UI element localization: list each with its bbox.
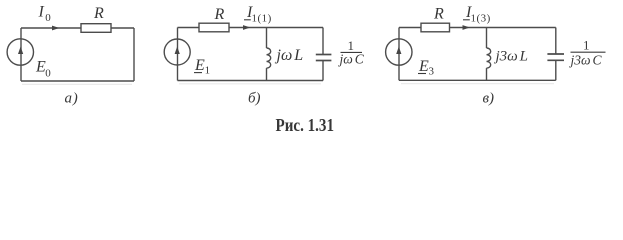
capacitor C (circuit v) plates	[547, 54, 564, 60]
EMF source E3: circle	[386, 39, 412, 65]
circuit v: inductor branch top lead	[486, 28, 488, 49]
circuit v: left wire	[398, 28, 400, 81]
svg-text:3: 3	[429, 65, 435, 77]
label E1 underline	[194, 72, 202, 74]
inductor L (circuit v) coil	[487, 48, 491, 68]
svg-text:I: I	[38, 4, 45, 21]
circuit b: right wire (capacitor branch top)	[322, 28, 324, 55]
capacitor C (circuit b) plates	[316, 55, 332, 61]
circuit v: bottom wire	[399, 79, 556, 81]
EMF source E0: arrowhead	[18, 47, 23, 55]
svg-text:0: 0	[45, 12, 51, 24]
svg-text:в): в)	[483, 91, 495, 107]
scan ghost under circuit a	[22, 83, 132, 85]
circuit b: bottom wire	[178, 80, 324, 82]
scan ghost under circuit v	[401, 83, 554, 85]
svg-text:jωL: jωL	[275, 47, 304, 64]
svg-text:0: 0	[45, 68, 51, 80]
EMF source E1: circle	[164, 39, 190, 65]
circuit v: inductor branch bottom lead	[486, 68, 488, 80]
label E3 underline	[418, 73, 426, 75]
circuit a: top wire	[21, 27, 134, 29]
svg-text:R: R	[433, 6, 444, 23]
circuit b: top wire	[178, 27, 324, 29]
label I1(1) underline	[244, 19, 251, 21]
circuit a: bottom wire	[21, 80, 134, 82]
scan ghost under circuit b	[179, 83, 321, 85]
circuit a: right wire	[133, 28, 135, 81]
svg-text:1: 1	[583, 37, 590, 52]
svg-text:R: R	[93, 5, 104, 22]
svg-text:Рис. 1.31: Рис. 1.31	[276, 115, 335, 135]
svg-text:а): а)	[65, 91, 79, 107]
svg-text:1(3): 1(3)	[471, 13, 491, 25]
svg-text:1: 1	[205, 65, 211, 77]
inductor L (circuit b) coil	[267, 48, 271, 68]
EMF source E0: circle	[7, 39, 33, 65]
svg-text:j3ωL: j3ωL	[494, 49, 528, 65]
svg-text:E: E	[418, 58, 429, 75]
EMF source E3: arrowhead	[396, 47, 401, 55]
current arrow I1(3)	[463, 25, 471, 30]
circuit b: inductor branch bottom lead	[266, 68, 268, 80]
current arrow I0	[52, 26, 60, 31]
circuit b: left wire	[177, 28, 179, 81]
svg-text:б): б)	[248, 91, 261, 107]
svg-text:E: E	[194, 57, 205, 74]
label 1/(jwC): fraction bar	[341, 51, 363, 53]
circuit v: capacitor branch bottom	[555, 60, 557, 80]
circuit b: capacitor branch bottom	[322, 61, 324, 81]
label I1(3) underline	[463, 19, 470, 21]
circuit a: left wire	[20, 28, 22, 81]
current arrow I1(1)	[243, 25, 251, 30]
svg-text:j3ωC: j3ωC	[569, 53, 603, 68]
resistor R (circuit v)	[421, 23, 450, 32]
circuit v: right wire (capacitor branch top)	[555, 28, 557, 55]
svg-text:1(1): 1(1)	[252, 12, 272, 24]
circuit v: top wire	[399, 27, 556, 29]
label 1/(j3wC): fraction bar	[571, 51, 606, 53]
svg-text:R: R	[214, 6, 225, 23]
EMF source E1: arrowhead	[175, 47, 180, 55]
svg-text:jωC: jωC	[338, 52, 365, 67]
resistor R (circuit a)	[81, 24, 111, 33]
circuit b: inductor branch top lead	[266, 28, 268, 49]
resistor R (circuit b)	[199, 23, 229, 32]
